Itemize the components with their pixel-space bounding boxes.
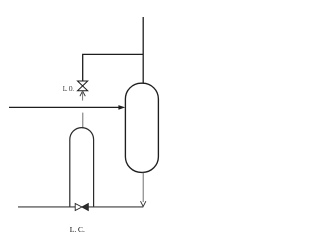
arrow up into valve V1	[80, 91, 85, 96]
drum vessel D1	[70, 128, 94, 207]
wire stub above drum	[82, 113, 84, 129]
valve V2 (L. C.) left triangle	[75, 204, 82, 211]
column vessel T1	[125, 83, 158, 172]
wire column bottoms down	[142, 173, 144, 202]
wire bottom product line	[18, 206, 143, 208]
valve V2 right triangle (flow arrow, filled)	[82, 204, 88, 211]
wire stem below arrow	[82, 91, 84, 100]
wire feed line horizontal	[9, 106, 119, 108]
wire overhead vertical from column top going up	[142, 17, 144, 84]
arrow feed into column	[118, 105, 125, 110]
svg-text:L. C.: L. C.	[70, 226, 85, 234]
valve V1 (L. O.) vertical bowtie upper triangle	[78, 81, 88, 86]
svg-text:L. O.: L. O.	[63, 85, 74, 93]
wire branch: horizontal at y=54 then down to valve	[83, 54, 144, 81]
valve V1 lower triangle	[78, 86, 88, 91]
arrow down at bottoms junction	[141, 201, 146, 206]
